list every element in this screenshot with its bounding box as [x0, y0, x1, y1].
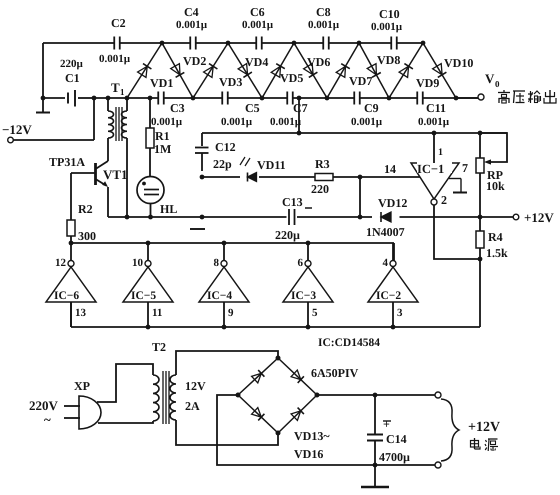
svg-text:+: +	[383, 417, 390, 431]
svg-text:0.001µ: 0.001µ	[418, 116, 450, 128]
svg-text:0.001µ: 0.001µ	[151, 116, 183, 128]
svg-text:T: T	[111, 80, 120, 95]
node R3 right	[358, 175, 363, 180]
svg-text:IC−1: IC−1	[417, 162, 444, 176]
svg-text:VD2: VD2	[183, 54, 206, 68]
op-amp IC-1 (Schmitt inverter)	[411, 161, 459, 199]
diode VD4	[228, 43, 268, 98]
capacitor C13 (220µ)	[275, 195, 312, 242]
node bottom rail	[106, 96, 111, 101]
svg-text:0.001µ: 0.001µ	[371, 21, 403, 33]
svg-text:0.001µ: 0.001µ	[308, 19, 340, 31]
svg-text:VT1: VT1	[103, 167, 128, 182]
node C14 bottom	[373, 463, 378, 468]
capacitor C6	[242, 5, 274, 50]
inverter IC-2	[368, 243, 418, 327]
svg-text:13: 13	[75, 307, 87, 319]
label IC:CD14584	[318, 337, 380, 349]
svg-text:0: 0	[495, 79, 500, 89]
svg-text:T2: T2	[152, 340, 166, 354]
wire R3 line	[202, 176, 420, 178]
svg-text:C14: C14	[386, 432, 407, 446]
node T1 secondary bottom	[125, 215, 130, 220]
pin 14 label	[384, 162, 396, 176]
svg-text:C5: C5	[245, 101, 260, 115]
bridge diode VD15 (L-B)	[238, 395, 278, 433]
svg-text:VD3: VD3	[219, 75, 242, 89]
diode VD6	[294, 43, 330, 98]
svg-text:9: 9	[228, 307, 234, 319]
wire plug to T2 primary bottom	[98, 421, 153, 423]
terminal V0 output	[456, 71, 500, 100]
node C13-R3 junction	[358, 177, 363, 219]
node bottom rail	[125, 96, 130, 101]
resistor R4 (1.5k)	[476, 230, 508, 260]
label +12V 电源	[468, 420, 500, 451]
svg-text:VD12: VD12	[378, 196, 407, 210]
inverter IC-3	[283, 243, 333, 327]
node top rail	[421, 41, 426, 46]
diode VD9	[389, 43, 439, 98]
pin 7 IC-1 ground	[449, 161, 468, 193]
svg-text:VD1: VD1	[150, 76, 173, 90]
svg-text:C12: C12	[215, 140, 236, 154]
bridge diode VD14 (T-R)	[278, 358, 317, 395]
svg-text:VD6: VD6	[307, 55, 330, 69]
svg-text:+12V: +12V	[468, 420, 500, 435]
node C1 left	[41, 96, 46, 101]
node RP top	[478, 131, 483, 136]
transformer T2 core	[163, 371, 169, 424]
svg-text:C8: C8	[316, 5, 331, 19]
capacitor C2	[99, 16, 131, 65]
wire top rail	[43, 42, 423, 44]
node C12 bottom	[200, 175, 205, 180]
svg-text:IC:CD14584: IC:CD14584	[318, 337, 380, 349]
node output bus	[146, 241, 151, 246]
node top rail	[226, 41, 231, 46]
capacitor C4	[176, 5, 208, 50]
label T2	[152, 340, 166, 354]
node bottom rail	[297, 96, 302, 101]
svg-text:6A50PIV: 6A50PIV	[311, 366, 359, 380]
bridge diode VD16 (B-R)	[278, 395, 317, 433]
node bridge corner	[236, 393, 241, 398]
svg-text:VD9: VD9	[416, 76, 439, 90]
svg-text:220µ: 220µ	[275, 228, 300, 242]
diode VD2	[162, 43, 206, 98]
svg-text:0.001µ: 0.001µ	[351, 116, 383, 128]
svg-text:C13: C13	[282, 195, 303, 209]
node bottom rail	[387, 96, 392, 101]
svg-text:1M: 1M	[154, 142, 171, 156]
node input bus	[391, 325, 396, 330]
ground	[361, 465, 389, 487]
diode VD10	[423, 43, 473, 98]
svg-text:C10: C10	[379, 7, 400, 21]
node top rail	[357, 41, 362, 46]
svg-text:IC−3: IC−3	[291, 290, 316, 302]
capacitor C11	[417, 92, 450, 129]
svg-text:1.5k: 1.5k	[486, 246, 508, 260]
svg-text:IC−6: IC−6	[54, 290, 79, 302]
svg-text:220µ: 220µ	[60, 58, 84, 70]
pin 2 bubble IC-1	[431, 193, 447, 207]
transformer T2 primary winding	[153, 375, 159, 421]
terminal -12V	[8, 137, 14, 143]
node output bus	[222, 241, 227, 246]
svg-text:14: 14	[384, 162, 396, 176]
svg-text:C11: C11	[426, 101, 446, 115]
svg-text:VD10: VD10	[444, 56, 473, 70]
resistor R1 (1M)	[146, 98, 171, 177]
terminal +12V out bottom	[435, 462, 441, 468]
resistor R2 (300)	[67, 173, 96, 243]
neon lamp HL	[137, 177, 177, 218]
svg-text:300: 300	[78, 229, 96, 243]
svg-text:4700µ: 4700µ	[379, 450, 410, 464]
svg-text:R4: R4	[488, 230, 503, 244]
svg-text:VD13~: VD13~	[294, 429, 330, 443]
wire T2 secondary bottom to bridge	[176, 420, 278, 445]
diode VD12 1N4007	[366, 196, 407, 239]
svg-text:R3: R3	[315, 157, 330, 171]
transformer T1 secondary winding	[122, 98, 127, 217]
svg-text:R1: R1	[155, 129, 170, 143]
node bridge corner	[315, 393, 320, 398]
transformer T1 core	[116, 107, 122, 141]
svg-text:XP: XP	[74, 379, 90, 393]
terminal +12V	[513, 210, 554, 225]
capacitor C3	[151, 92, 185, 129]
svg-text:6: 6	[298, 257, 304, 269]
wire bridge negative return	[217, 395, 373, 465]
label 高压输出 (HV output)	[498, 90, 556, 103]
svg-text:8: 8	[214, 257, 220, 269]
wire output bus W3	[71, 243, 394, 261]
node bottom rail	[92, 96, 97, 101]
svg-text:C3: C3	[170, 101, 185, 115]
wire -12V to C1 node	[13, 98, 94, 140]
wire input bus	[71, 302, 480, 327]
svg-text:22p: 22p	[213, 157, 232, 171]
node pin1 tap	[432, 131, 437, 136]
diode VD3	[193, 43, 242, 98]
label 220V	[29, 398, 59, 427]
svg-text:2: 2	[441, 193, 447, 207]
diode VD5	[262, 43, 303, 98]
label VD13~VD16	[294, 429, 330, 461]
svg-text:IC−4: IC−4	[207, 290, 232, 302]
capacitor C1 (220µ)	[43, 58, 94, 107]
node bottom rail	[260, 96, 265, 101]
svg-text:VD5: VD5	[280, 71, 303, 85]
svg-text:7: 7	[462, 161, 468, 175]
label T1	[111, 80, 125, 97]
svg-text:4: 4	[383, 257, 389, 269]
svg-text:0.001µ: 0.001µ	[270, 116, 302, 128]
svg-text:3: 3	[397, 307, 403, 319]
diode VD11	[240, 157, 286, 182]
resistor R3 (220)	[311, 157, 333, 196]
label TP31A	[49, 155, 85, 169]
capacitor C8	[308, 5, 340, 50]
capacitor C14 (4700µ)	[367, 395, 410, 465]
svg-text:HL: HL	[160, 202, 177, 216]
wire emitter/+12V line	[108, 216, 513, 218]
transformer T2 secondary winding	[170, 375, 206, 420]
svg-text:12: 12	[55, 257, 67, 269]
wire T2 secondary top to bridge	[176, 351, 278, 375]
svg-text:220V: 220V	[29, 398, 59, 413]
wire RP bottom to R4	[479, 173, 481, 231]
diode VD8	[359, 43, 400, 98]
node bottom rail	[325, 96, 330, 101]
node R4 top	[478, 215, 483, 220]
svg-text:VD11: VD11	[257, 158, 286, 172]
node A	[190, 215, 205, 229]
svg-text:VD7: VD7	[349, 74, 372, 88]
pin 1 IC-1	[434, 133, 443, 163]
label -12V	[2, 122, 32, 137]
svg-text:2A: 2A	[185, 399, 200, 413]
svg-text:+12V: +12V	[524, 210, 554, 225]
svg-text:C7: C7	[293, 101, 308, 115]
capacitor C7	[270, 92, 308, 129]
node bridge corner	[276, 431, 281, 436]
svg-text:10: 10	[132, 257, 144, 269]
node output bus	[306, 241, 311, 246]
node top rail	[292, 41, 297, 46]
terminal +12V out top	[435, 392, 441, 398]
wire C12 node line	[202, 132, 507, 134]
inverter IC-4	[199, 243, 249, 327]
wire to output bottom	[375, 464, 435, 466]
potentiometer RP (10k)	[476, 133, 507, 193]
node top rail	[160, 41, 165, 46]
node HL bottom	[148, 215, 153, 220]
capacitor C10	[371, 7, 403, 50]
svg-text:11: 11	[152, 307, 162, 319]
svg-text:0.001µ: 0.001µ	[99, 53, 131, 65]
capacitor C9	[351, 92, 383, 129]
wire multiplier tap	[297, 98, 302, 135]
svg-text:12V: 12V	[185, 379, 206, 393]
node R2 junction	[69, 241, 74, 246]
svg-text:IC−5: IC−5	[131, 290, 156, 302]
svg-text:VD4: VD4	[245, 55, 268, 69]
node input bus	[146, 325, 151, 330]
wire plug to T2 primary top	[97, 364, 153, 402]
svg-text:1: 1	[438, 147, 443, 158]
svg-text:0.001µ: 0.001µ	[176, 19, 208, 31]
node input bus	[306, 325, 311, 330]
inverter IC-5	[123, 243, 173, 327]
transistor VT1	[71, 161, 128, 217]
svg-text:−12V: −12V	[2, 122, 32, 137]
wire top-left vertical	[42, 43, 44, 98]
svg-text:VD16: VD16	[294, 447, 323, 461]
bridge diode VD13 (L-T)	[238, 358, 278, 395]
svg-text:1N4007: 1N4007	[366, 225, 405, 239]
diode VD1	[127, 43, 173, 98]
svg-text:C4: C4	[184, 5, 199, 19]
label 6A50PIV	[311, 366, 359, 380]
svg-text:C1: C1	[65, 71, 80, 85]
ground stub left	[36, 98, 50, 113]
capacitor C12 (22p)	[195, 133, 236, 171]
node bottom rail	[191, 96, 196, 101]
plug XP	[64, 379, 101, 429]
svg-text:V: V	[485, 71, 495, 86]
svg-text:IC−2: IC−2	[376, 290, 401, 302]
node input bus	[222, 325, 227, 330]
node bottom rail	[454, 96, 459, 101]
svg-text:1: 1	[120, 87, 125, 97]
svg-text:C6: C6	[250, 5, 265, 19]
svg-text:R2: R2	[78, 202, 93, 216]
svg-text:10k: 10k	[486, 179, 505, 193]
svg-text:VD8: VD8	[377, 53, 400, 67]
capacitor C5	[221, 92, 260, 129]
node bottom rail	[148, 96, 153, 101]
transformer T1 primary winding	[94, 98, 127, 161]
svg-text:5: 5	[312, 307, 318, 319]
svg-text:0.001µ: 0.001µ	[242, 19, 274, 31]
svg-text:0.001µ: 0.001µ	[221, 116, 253, 128]
svg-text:~: ~	[44, 412, 51, 427]
svg-text:C9: C9	[364, 101, 379, 115]
node bridge corner	[276, 356, 281, 361]
inverter IC-6	[46, 243, 96, 327]
svg-text:TP31A: TP31A	[49, 155, 85, 169]
svg-text:C2: C2	[111, 16, 126, 30]
svg-text:220: 220	[311, 182, 329, 196]
diode VD7	[327, 43, 372, 98]
wire bottom rail	[127, 97, 478, 99]
node C14 top	[373, 393, 378, 398]
wire bridge positive rail	[317, 394, 435, 396]
wire R4 bottom jog to pin2	[434, 205, 482, 327]
brace output	[441, 399, 459, 461]
